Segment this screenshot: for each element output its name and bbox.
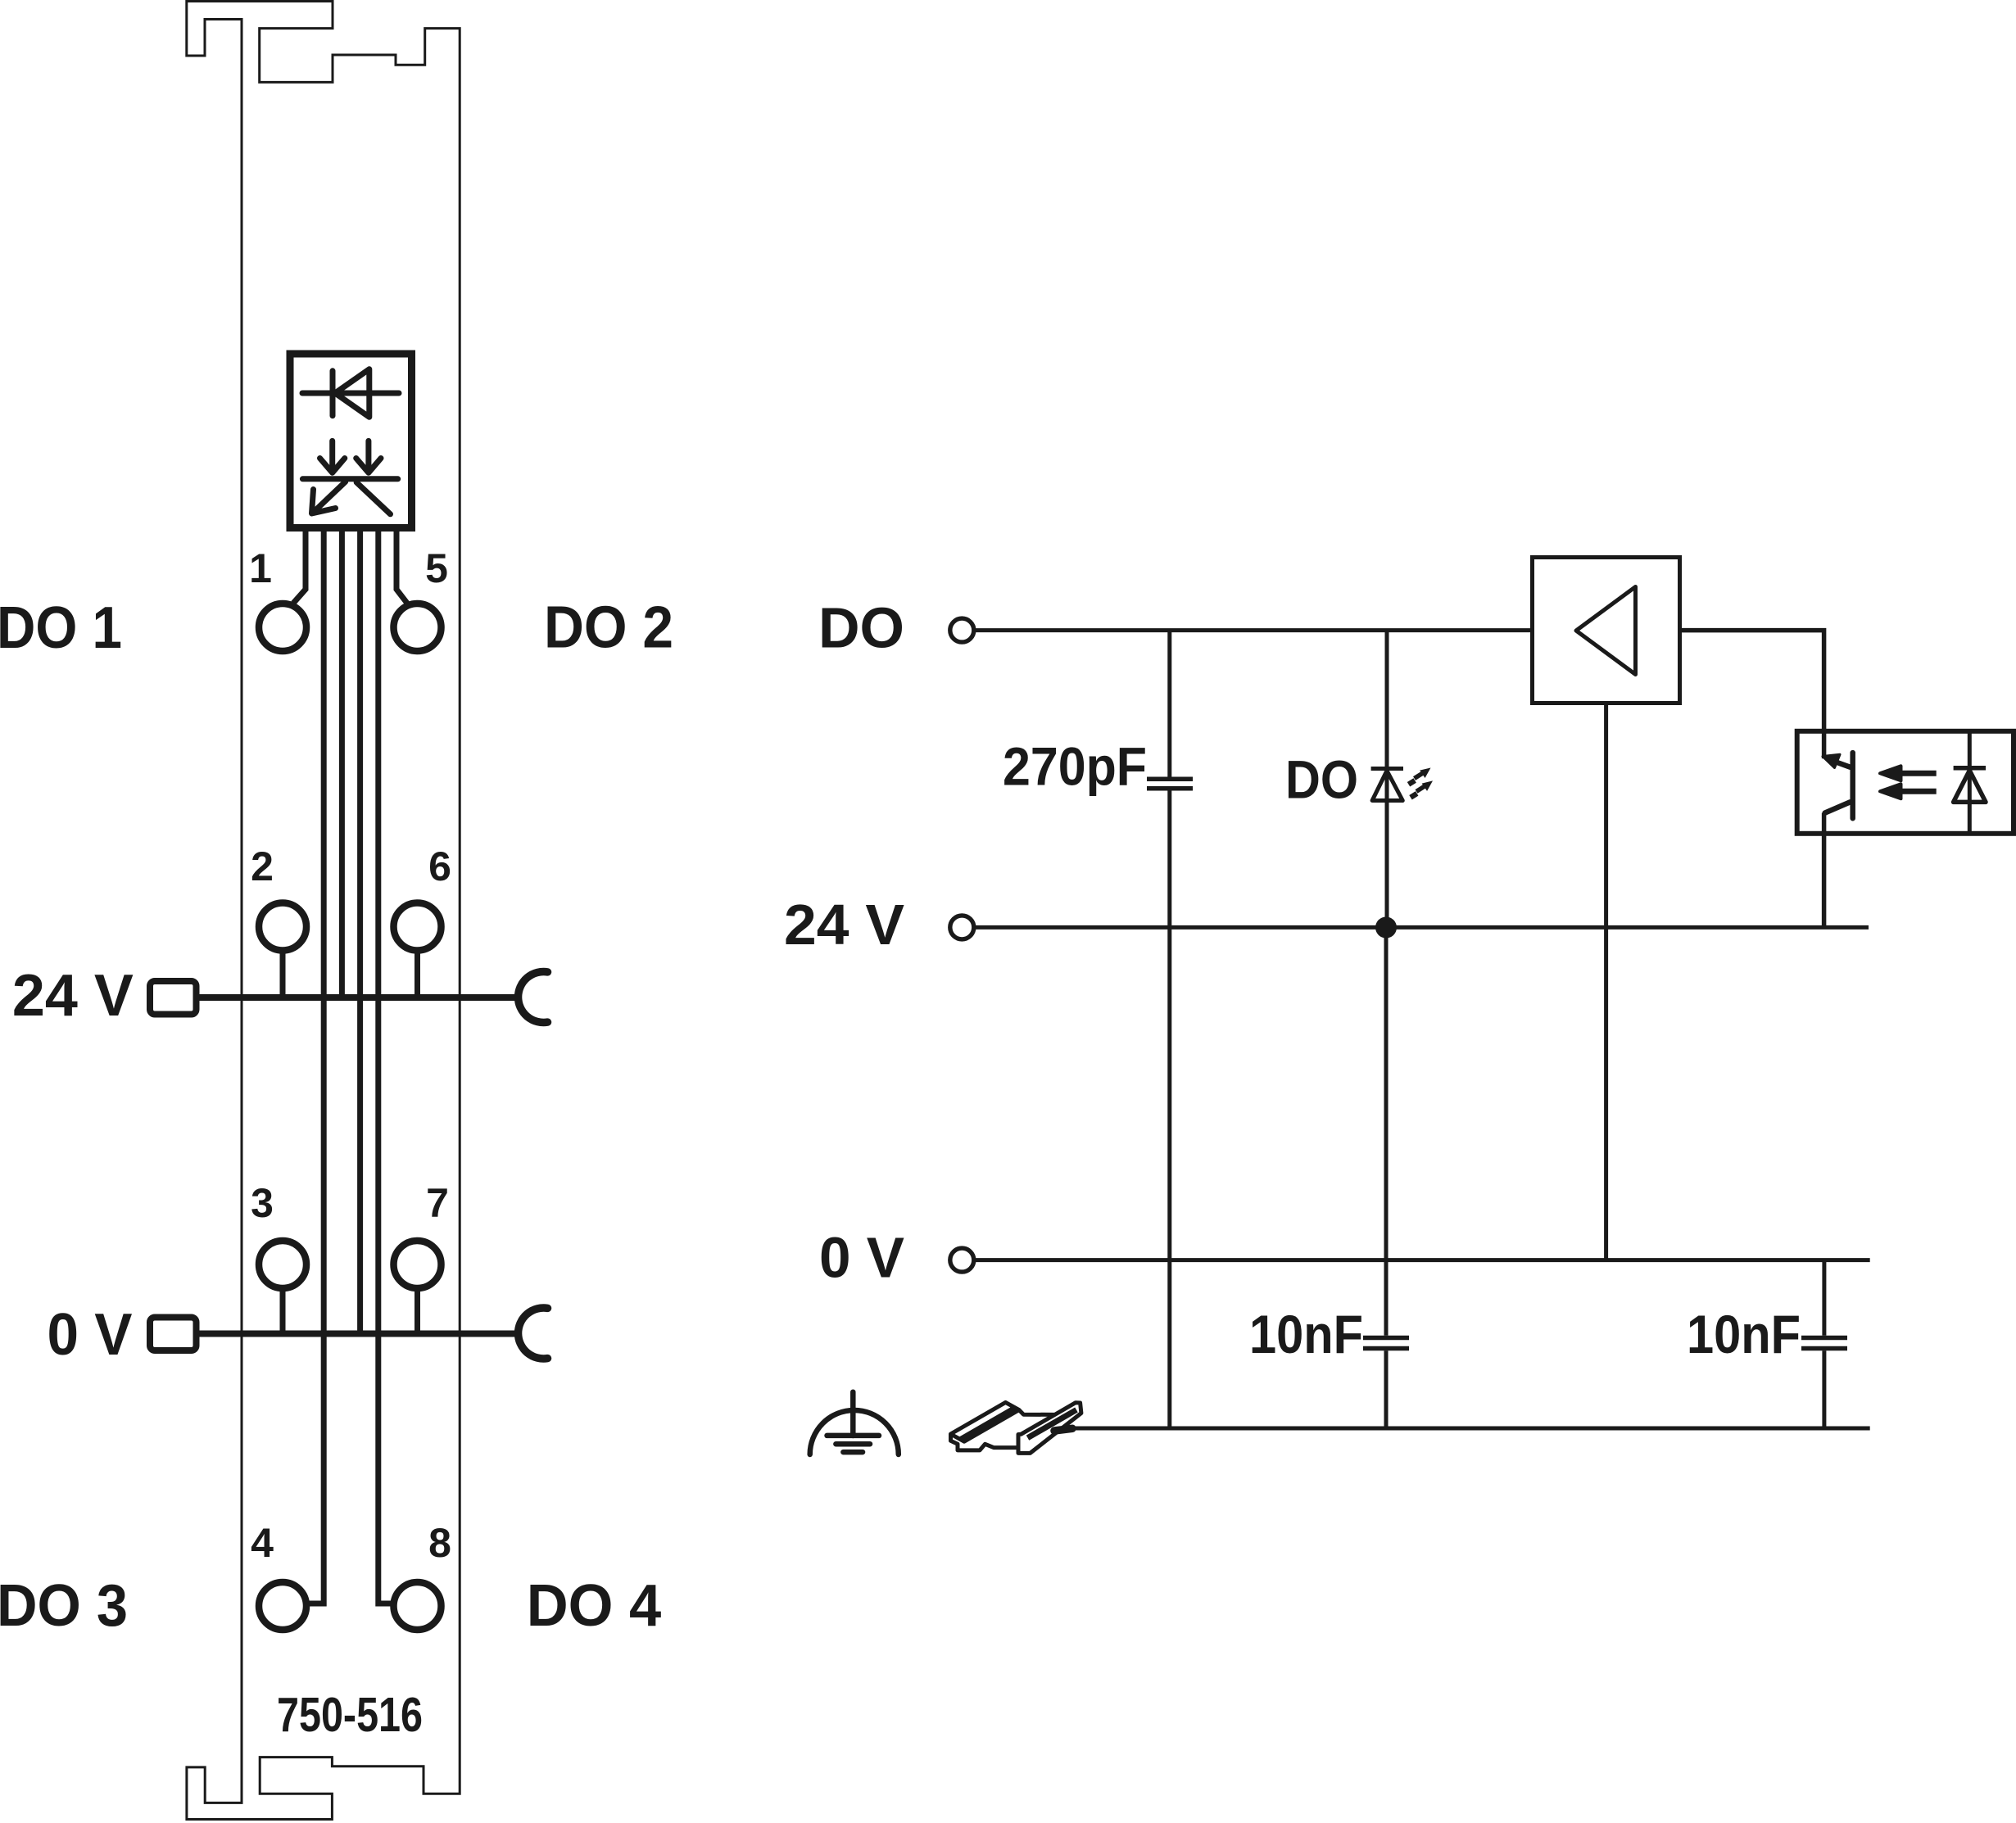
- wire w6 to pin5: [396, 532, 407, 604]
- capacitor 10nF (left): [1363, 928, 1409, 1429]
- rail left flange top face: [951, 1402, 1020, 1441]
- terminal 24V: [950, 916, 974, 939]
- LED DO (status) branch wire: [1385, 631, 1389, 928]
- spring hook 24V: [519, 972, 548, 1023]
- svg-text:DO 1: DO 1: [0, 595, 122, 661]
- 24V bus wire: [197, 994, 517, 1001]
- stub pin7: [415, 1287, 420, 1334]
- svg-text:270pF: 270pF: [1003, 735, 1147, 796]
- pin 1: [259, 604, 306, 651]
- pin 5: [394, 604, 442, 651]
- pin 6: [394, 903, 442, 951]
- terminal DO: [950, 618, 974, 642]
- svg-text:DO: DO: [818, 596, 904, 660]
- optocoupler diode: [1954, 768, 1986, 803]
- svg-text:2: 2: [251, 844, 274, 889]
- svg-text:DO: DO: [1285, 749, 1358, 810]
- svg-text:24 V: 24 V: [784, 893, 904, 957]
- svg-text:DO 2: DO 2: [544, 595, 673, 661]
- wire driver ground to 0V: [1604, 703, 1608, 1260]
- svg-text:1: 1: [249, 545, 272, 591]
- clamp contact 24V: [150, 981, 197, 1015]
- rail left flange shadow stripe: [961, 1408, 1016, 1439]
- LED light-arrows symbol: [302, 441, 397, 513]
- pin 3: [259, 1241, 306, 1288]
- optocoupler U2 box: [1797, 731, 2014, 834]
- clamp contact 0V: [150, 1318, 197, 1351]
- rail right flange body: [1018, 1403, 1081, 1454]
- rail left lip front profile: [951, 1434, 965, 1450]
- 0V bus wire: [197, 1331, 517, 1337]
- pin 2: [259, 903, 306, 951]
- rail channel floor front edge with slot notch: [965, 1444, 1019, 1450]
- svg-text:5: 5: [425, 545, 448, 591]
- svg-text:4: 4: [251, 1520, 274, 1566]
- DIN rail symbol: [951, 1402, 1081, 1453]
- LED light arrows: [1409, 768, 1433, 798]
- svg-text:0 V: 0 V: [819, 1226, 904, 1290]
- svg-text:6: 6: [428, 844, 451, 889]
- rail joint wedge to earth line: [1054, 1428, 1072, 1431]
- svg-text:0 V: 0 V: [48, 1302, 133, 1368]
- optocoupler inner divider: [1968, 731, 1972, 834]
- wire w2 to pin4: [309, 532, 324, 1604]
- driver triangle: [1576, 587, 1636, 675]
- junction dot 24V/LED: [1375, 917, 1397, 939]
- stub pin2: [280, 948, 286, 997]
- rail right flange shadow stripe: [1028, 1410, 1077, 1438]
- svg-text:7: 7: [426, 1180, 449, 1226]
- wire 0V line: [976, 1258, 1870, 1262]
- wire emitter to 24V: [1822, 813, 1827, 928]
- diode D1 (status LED diode, pointing left): [302, 369, 399, 418]
- svg-text:DO 4: DO 4: [527, 1573, 662, 1639]
- pin 4: [259, 1582, 306, 1630]
- capacitor 10nF (right): [1801, 1260, 1847, 1428]
- svg-text:DO 3: DO 3: [0, 1573, 128, 1639]
- module 750-516 body outline: [187, 2, 460, 1820]
- wire 24V line: [976, 925, 1869, 930]
- spring hook 0V: [519, 1308, 548, 1359]
- wire DO line: [976, 628, 1533, 632]
- pin 7: [394, 1241, 442, 1288]
- LED DO symbol: [1371, 769, 1403, 801]
- phototransistor Q1: [1825, 753, 1853, 818]
- svg-text:3: 3: [251, 1180, 274, 1226]
- functional earth symbol: [810, 1392, 899, 1454]
- wire w1 to pin1: [293, 532, 306, 604]
- svg-text:750-516: 750-516: [277, 1688, 423, 1742]
- stub pin3: [280, 1287, 286, 1334]
- LED indicator box: [290, 354, 412, 528]
- pin 8: [394, 1582, 442, 1630]
- terminal 0V: [950, 1248, 974, 1272]
- svg-text:10nF: 10nF: [1687, 1304, 1801, 1364]
- phototransistor collector arrowhead: [1823, 754, 1840, 767]
- driver block U1: [1533, 558, 1680, 703]
- wire collector to box top: [1822, 731, 1827, 758]
- capacitor 270pF: [1147, 631, 1193, 1428]
- wire w4 to 0V bus: [357, 532, 363, 1334]
- wire w5 to pin8: [378, 532, 392, 1604]
- stub pin6: [415, 948, 420, 997]
- rail channel floor back edge: [1019, 1410, 1054, 1415]
- wire earth rail line: [1057, 1427, 1870, 1431]
- svg-text:24 V: 24 V: [12, 963, 134, 1029]
- wire driver output to optocoupler: [1680, 631, 1824, 731]
- wire w3 to 24V bus: [339, 532, 345, 997]
- svg-text:8: 8: [428, 1520, 451, 1566]
- optocoupler light arrows: [1880, 766, 1937, 798]
- svg-text:10nF: 10nF: [1249, 1304, 1363, 1364]
